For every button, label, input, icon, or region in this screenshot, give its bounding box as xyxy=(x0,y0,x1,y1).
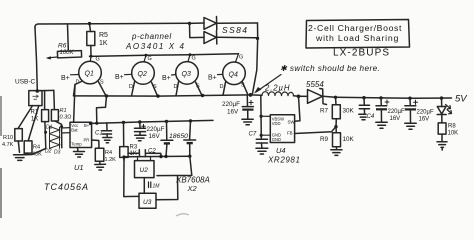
svg-text:G: G xyxy=(192,56,196,62)
svg-text:4.7K: 4.7K xyxy=(2,142,14,148)
wire ladder to ground xyxy=(25,149,46,155)
ground 220uF out1 xyxy=(376,122,387,128)
svg-text:C4: C4 xyxy=(367,114,375,120)
svg-text:220µF: 220µF xyxy=(388,109,405,115)
svg-text:16V: 16V xyxy=(227,109,239,116)
svg-text:R4: R4 xyxy=(33,145,40,151)
diode pair SS84 lower xyxy=(190,23,258,44)
svg-text:220µF: 220µF xyxy=(222,101,240,108)
capacitor C2 xyxy=(128,149,161,157)
diode D1 xyxy=(50,126,60,133)
svg-text:5554: 5554 xyxy=(306,80,324,89)
svg-text:PR: PR xyxy=(84,138,90,143)
wire 5V output rail xyxy=(334,96,452,100)
svg-text:AO3401 X 4: AO3401 X 4 xyxy=(125,42,186,51)
svg-text:U4: U4 xyxy=(276,146,286,155)
svg-text:S: S xyxy=(241,83,245,89)
diode D3 xyxy=(50,141,60,148)
wire gate rail xyxy=(90,53,239,58)
note switch arrow xyxy=(254,64,380,94)
wire U2/U3 left loop xyxy=(124,160,139,197)
svg-text:R9: R9 xyxy=(320,136,329,143)
label D2 D3 xyxy=(45,149,61,156)
resistor R6 xyxy=(46,25,82,60)
svg-text:B+: B+ xyxy=(61,75,70,82)
svg-text:16V: 16V xyxy=(390,116,401,122)
svg-text:SS84: SS84 xyxy=(222,25,248,35)
svg-text:5V: 5V xyxy=(455,94,468,105)
svg-text:R1: R1 xyxy=(31,110,39,116)
svg-text:1M: 1M xyxy=(153,184,161,190)
svg-text:XR2981: XR2981 xyxy=(267,156,301,165)
svg-text:D1: D1 xyxy=(46,125,53,131)
wire FB to divider xyxy=(295,127,336,134)
ground R4 xyxy=(95,164,106,170)
svg-text:FB: FB xyxy=(287,131,293,136)
svg-text:LX-2BUPS: LX-2BUPS xyxy=(333,48,390,59)
svg-text:Q2: Q2 xyxy=(138,71,147,78)
svg-text:U1: U1 xyxy=(74,163,84,172)
capacitor 220uF out1 xyxy=(376,98,405,122)
svg-text:U3: U3 xyxy=(143,199,152,206)
IC U4 XR2981 xyxy=(260,96,296,143)
wire diode ladder rails xyxy=(44,121,63,149)
svg-text:R1: R1 xyxy=(60,108,67,114)
capacitor 220uF out2 xyxy=(405,98,434,122)
svg-text:C1: C1 xyxy=(95,131,103,137)
svg-text:10K: 10K xyxy=(343,136,355,143)
wire USB VBUS to R2/R1 xyxy=(37,89,54,91)
svg-text:S: S xyxy=(153,84,157,90)
ground C7 xyxy=(256,148,268,154)
ground R9 xyxy=(331,150,342,156)
svg-text:USB-C: USB-C xyxy=(15,79,36,86)
wire U2 right xyxy=(157,156,192,175)
label U4 xyxy=(276,146,286,155)
IC U2 xyxy=(135,157,155,178)
node junction dot diode split xyxy=(188,22,191,25)
svg-text:B+: B+ xyxy=(115,74,124,81)
svg-text:Q1: Q1 xyxy=(85,71,94,78)
ground U1 temp xyxy=(74,148,85,158)
wire top VBUS rail xyxy=(35,23,190,28)
resistor R1 0.3ohm xyxy=(51,90,71,121)
wire battery rail xyxy=(89,119,213,125)
svg-text:R4: R4 xyxy=(105,150,112,156)
svg-text:D: D xyxy=(220,84,224,90)
node VBUS junction dot at R5 xyxy=(88,22,91,25)
wire rail drop to battery rail xyxy=(97,96,107,123)
svg-text:Q3: Q3 xyxy=(182,71,191,78)
svg-text:2.2µH: 2.2µH xyxy=(264,84,290,93)
svg-text:p-channel: p-channel xyxy=(131,32,172,41)
transistor Q2 xyxy=(115,55,158,96)
svg-text:R5: R5 xyxy=(99,32,108,39)
label 5V xyxy=(455,94,468,105)
ground R8 xyxy=(437,142,447,150)
wire U2 to U3 xyxy=(144,178,160,194)
svg-text:D: D xyxy=(129,84,133,90)
svg-text:VDD: VDD xyxy=(272,121,281,126)
scan edge artifact left xyxy=(0,96,2,218)
diode SS54 xyxy=(299,80,336,105)
wire USB pin right xyxy=(28,106,39,141)
svg-text:2-Cell Charger/Boost: 2-Cell Charger/Boost xyxy=(308,23,402,33)
capacitor 220uF 16V battery xyxy=(135,122,165,140)
svg-text:0.3Ω: 0.3Ω xyxy=(60,115,72,121)
svg-text:D2: D2 xyxy=(45,149,52,155)
svg-text:B+: B+ xyxy=(162,75,171,82)
IC U3 xyxy=(139,193,156,208)
LED indicator xyxy=(437,98,451,123)
svg-text:Q4: Q4 xyxy=(229,72,238,79)
svg-text:U2: U2 xyxy=(140,167,149,174)
resistor R9 10K xyxy=(320,127,355,149)
svg-text:Temp: Temp xyxy=(71,142,82,147)
label p-channel AO3401 x4 xyxy=(125,32,186,51)
svg-text:C7: C7 xyxy=(249,132,257,138)
resistor R8 10K xyxy=(438,123,458,141)
svg-text:R3: R3 xyxy=(130,145,138,151)
svg-text:B+: B+ xyxy=(208,75,217,82)
resistor R5 xyxy=(87,24,108,57)
wire protection lower rail xyxy=(122,155,191,161)
svg-text:10K: 10K xyxy=(448,131,459,137)
label XB7608A xyxy=(175,176,210,185)
svg-text:GND: GND xyxy=(272,137,281,142)
title box xyxy=(306,20,410,49)
connector USB-C xyxy=(15,79,42,106)
svg-text:G: G xyxy=(96,57,100,63)
capacitor 220uF node xyxy=(222,96,254,119)
resistor R4 1.2K xyxy=(92,140,117,164)
capacitor C4 xyxy=(359,98,375,120)
label LX-2BUPS xyxy=(333,48,390,59)
svg-text:R8: R8 xyxy=(448,124,456,130)
svg-text:G: G xyxy=(148,56,152,62)
svg-text:TC4056A: TC4056A xyxy=(44,182,89,192)
IC U1 TC4056A xyxy=(62,85,92,148)
node switch output xyxy=(297,95,301,99)
label SS84 xyxy=(222,25,248,35)
wire left vertical to USB-C xyxy=(35,28,37,91)
svg-text:220µF: 220µF xyxy=(417,110,434,116)
ground 220uF battery xyxy=(135,135,146,141)
label U1 xyxy=(74,163,84,172)
resistor R2 1K xyxy=(31,91,49,123)
transistor Q4 xyxy=(208,54,248,95)
wire SW to switch node xyxy=(295,96,300,121)
diode pair SS84 upper xyxy=(190,17,258,30)
capacitor C7 xyxy=(249,132,268,148)
svg-text:D: D xyxy=(174,84,178,90)
svg-text:D3: D3 xyxy=(54,150,61,156)
scan artifact bottom xyxy=(176,214,189,216)
ground 220uF out2 xyxy=(405,123,416,129)
wire source rail xyxy=(74,93,253,98)
svg-text:R6: R6 xyxy=(58,43,67,50)
label X2 xyxy=(187,184,198,193)
svg-text:SW: SW xyxy=(288,120,296,125)
svg-text:1K: 1K xyxy=(99,40,108,47)
svg-text:S: S xyxy=(100,80,104,86)
svg-text:X2: X2 xyxy=(187,184,198,193)
label D1 xyxy=(46,125,53,131)
ground C1 xyxy=(103,138,112,143)
svg-text:30K: 30K xyxy=(343,108,355,115)
svg-text:1K: 1K xyxy=(31,117,38,123)
label XR2981 xyxy=(267,156,301,165)
svg-text:C2: C2 xyxy=(148,149,156,155)
resistor R10 xyxy=(2,129,22,153)
wire U3 right xyxy=(156,176,178,200)
ground C4 xyxy=(359,114,366,120)
inductor 2.2uH xyxy=(251,84,299,97)
resistor R4 43K xyxy=(23,141,43,158)
svg-text:D: D xyxy=(76,80,80,86)
diode D2 xyxy=(50,134,60,141)
wire diode output down to switch node xyxy=(253,23,260,94)
ground 220uF node xyxy=(242,119,253,125)
resistor R7 30K xyxy=(320,97,355,128)
capacitor C1 xyxy=(95,123,112,137)
transistor Q3 xyxy=(162,55,202,96)
svg-text:with Load Sharing: with Load Sharing xyxy=(315,33,399,43)
wire USB pin left xyxy=(18,106,33,129)
svg-text:16V: 16V xyxy=(149,133,161,140)
svg-text:✱ switch should be here.: ✱ switch should be here. xyxy=(280,64,380,73)
svg-text:220µF: 220µF xyxy=(147,126,165,133)
svg-text:R7: R7 xyxy=(320,108,329,115)
battery 18650 xyxy=(161,121,196,156)
svg-text:S: S xyxy=(196,84,200,90)
resistor R3 1K xyxy=(120,122,138,160)
svg-text:G: G xyxy=(239,55,243,61)
svg-text:1.2K: 1.2K xyxy=(105,157,117,163)
svg-text:Bat: Bat xyxy=(71,128,78,133)
ground usb divider xyxy=(14,155,27,161)
svg-text:18650: 18650 xyxy=(169,133,188,140)
transistor Q1 xyxy=(61,56,106,96)
svg-text:16V: 16V xyxy=(419,117,430,123)
label TC4056A xyxy=(44,182,89,192)
svg-text:R10: R10 xyxy=(3,135,13,141)
